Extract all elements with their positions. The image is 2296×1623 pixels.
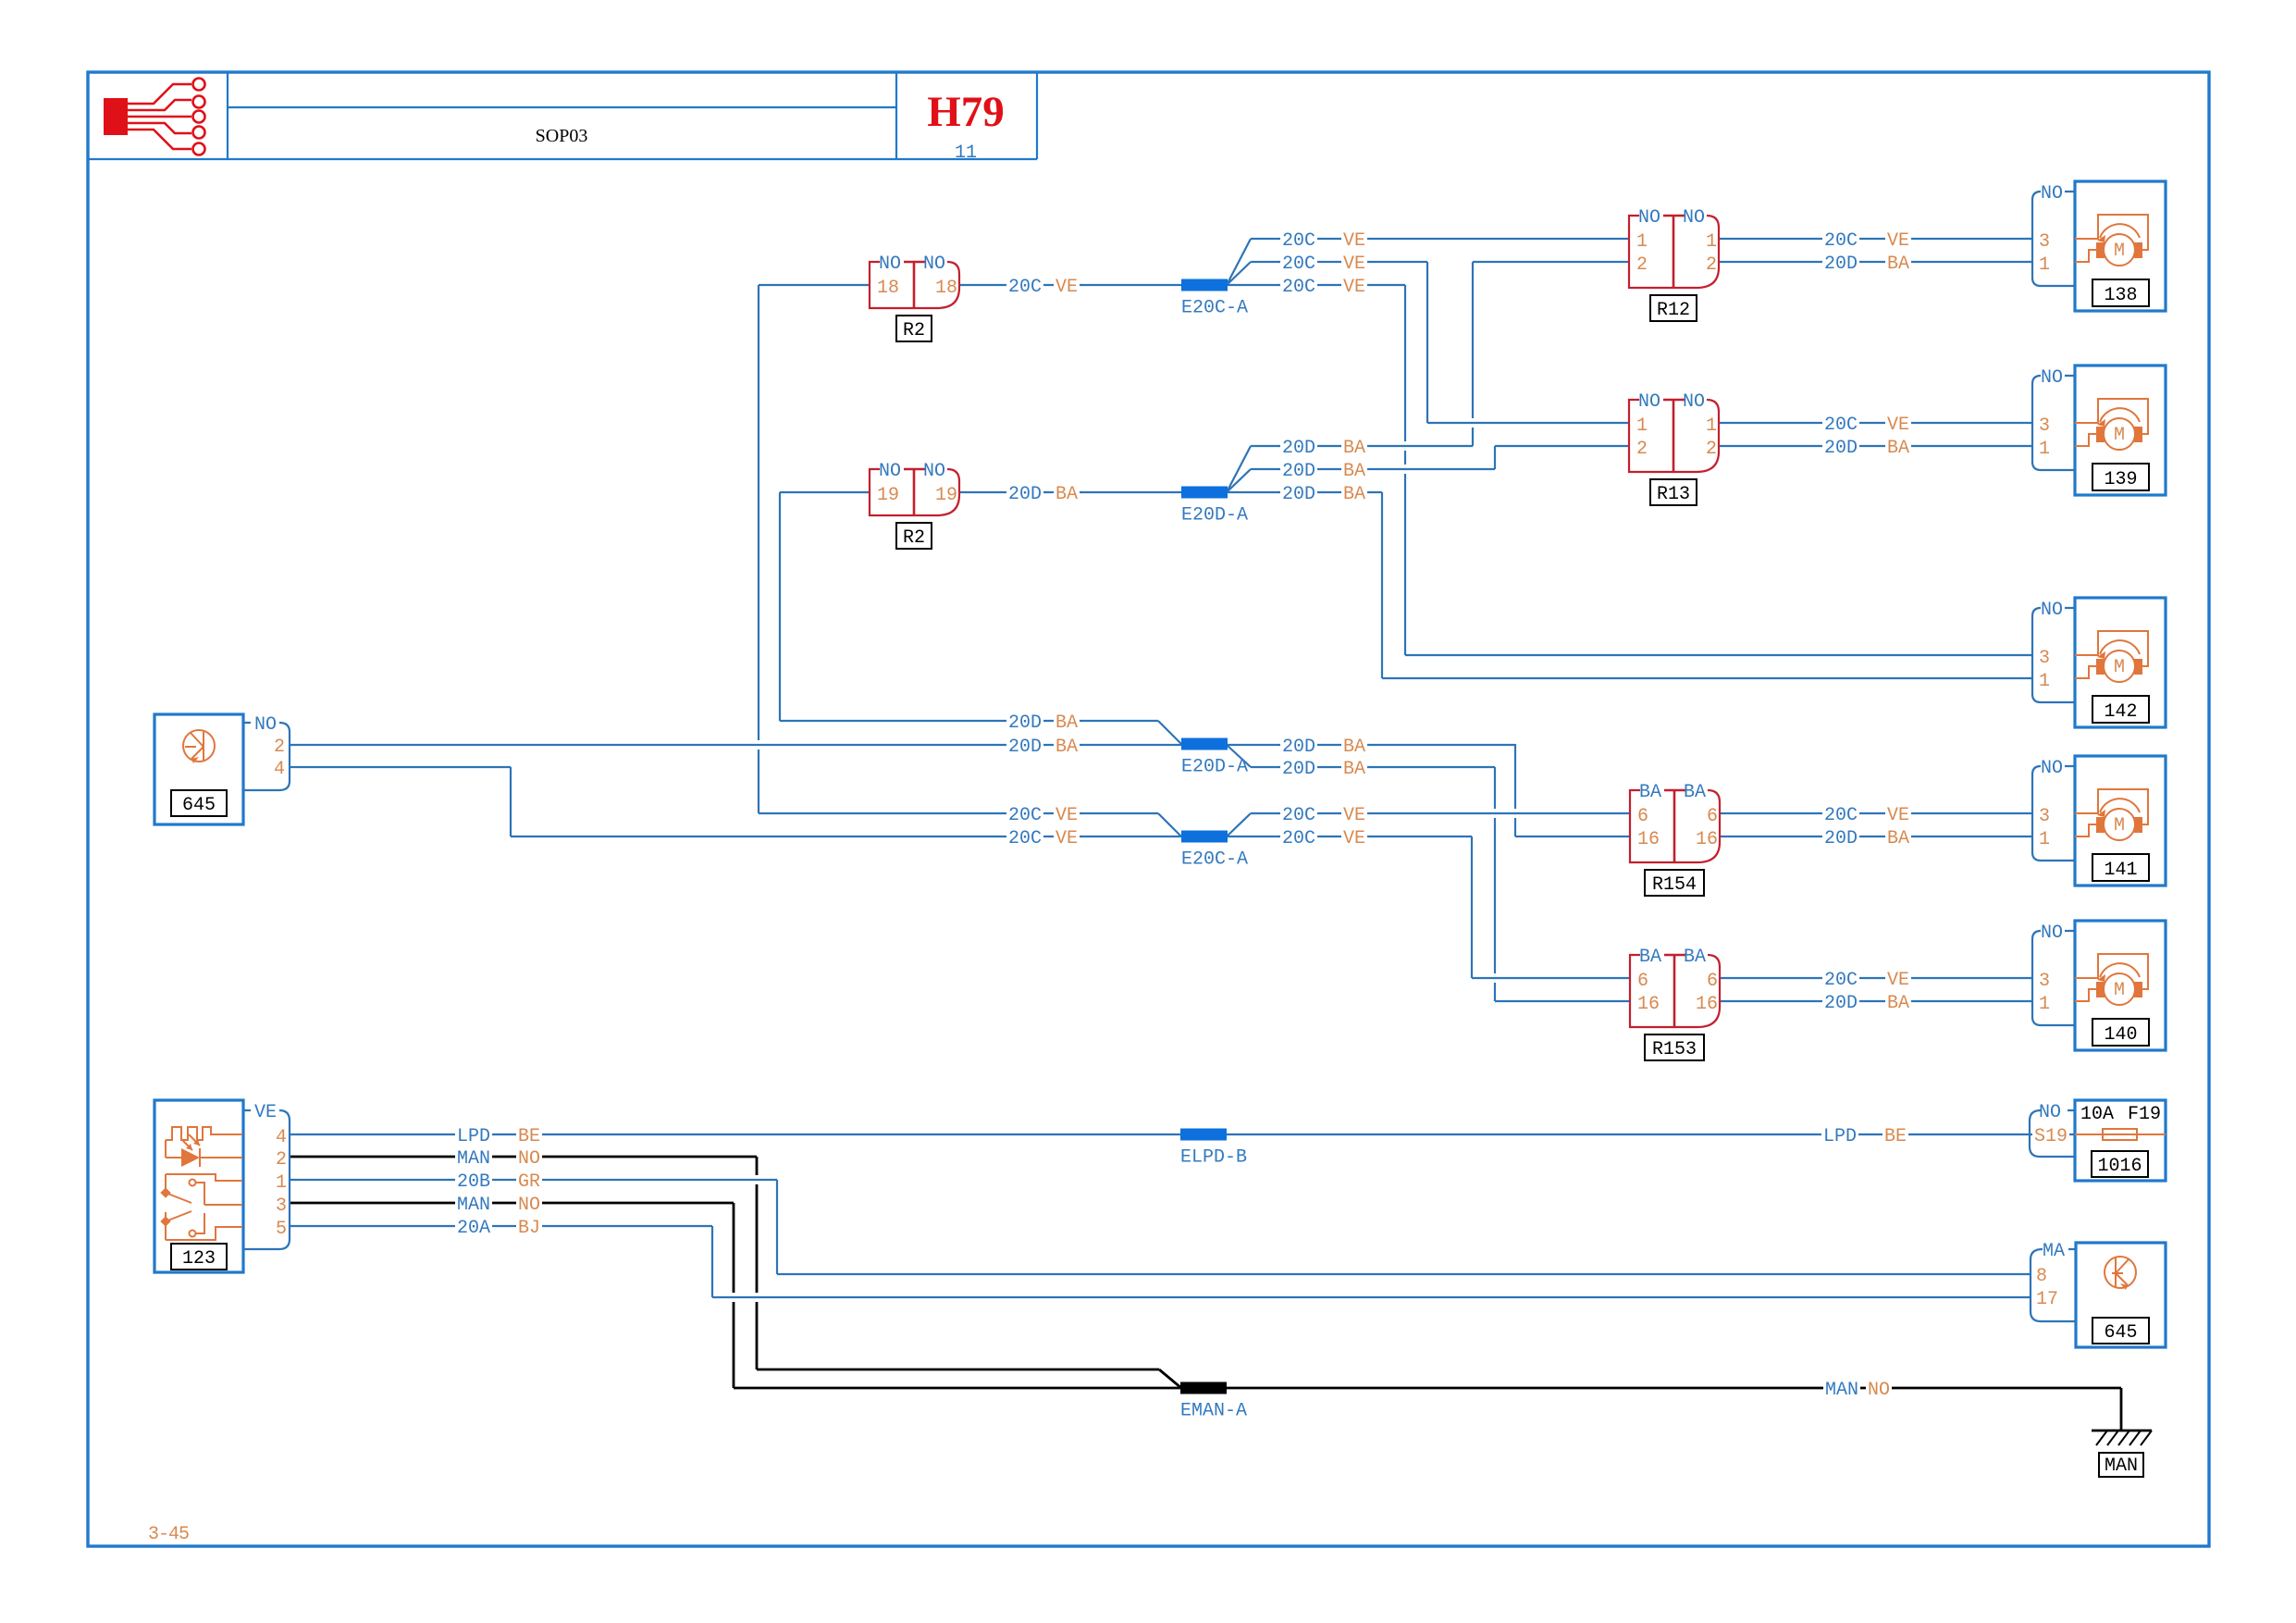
svg-text:VE: VE <box>1055 805 1078 826</box>
svg-text:MAN: MAN <box>1825 1380 1858 1401</box>
svg-text:NO: NO <box>254 714 277 736</box>
svg-text:1: 1 <box>2039 829 2050 850</box>
svg-text:MAN: MAN <box>457 1148 490 1170</box>
wire vertical 20D-BA down to R153 pin16 <box>1494 767 1496 1001</box>
svg-text:20D: 20D <box>1282 759 1315 780</box>
wire 20D-BA splice out row1 <box>1251 437 1473 459</box>
svg-text:20C: 20C <box>1008 828 1042 849</box>
svg-text:142: 142 <box>2104 701 2137 723</box>
motor component 142 <box>2032 598 2166 727</box>
svg-text:VE: VE <box>1343 254 1365 275</box>
svg-text:NO: NO <box>2041 183 2063 204</box>
svg-text:20D: 20D <box>1824 438 1858 459</box>
svg-text:MA: MA <box>2043 1241 2065 1262</box>
wire vertical from R2 pin19 down to E20D-A branch <box>779 492 781 721</box>
svg-text:NO: NO <box>2041 600 2063 621</box>
wire vertical from R2 pin18 down to E20C-A branch <box>758 285 759 813</box>
splice fan E20D-A upper diagonals <box>1227 446 1251 492</box>
wire 20C-VE splice out to R12 pin1 <box>1251 229 1629 252</box>
svg-text:20C: 20C <box>1282 230 1315 252</box>
svg-text:3: 3 <box>2039 971 2050 992</box>
svg-text:BA: BA <box>1343 484 1365 505</box>
svg-text:3: 3 <box>2039 231 2050 253</box>
motor component 138 <box>2032 181 2166 311</box>
wire 20C-VE splice low out straight <box>1227 827 1472 849</box>
control unit 645 bottom <box>2031 1241 2166 1347</box>
sheet code H79 <box>927 88 1005 136</box>
svg-text:R13: R13 <box>1657 484 1690 505</box>
svg-text:NO: NO <box>2041 923 2063 944</box>
svg-text:1: 1 <box>1706 231 1717 253</box>
svg-text:20A: 20A <box>457 1218 490 1239</box>
wire 20C-VE into R13 pin1 <box>1427 422 1629 424</box>
wire 20C-VE 645 pin4 to splice E20C-A <box>511 827 1181 849</box>
svg-text:2: 2 <box>1636 254 1648 276</box>
svg-text:NO: NO <box>518 1148 540 1170</box>
wire vertical 20D-BA up to R12 pin2 <box>1472 262 1474 446</box>
svg-text:VE: VE <box>1887 805 1909 826</box>
svg-text:SOP03: SOP03 <box>536 126 588 146</box>
wire 20D-BA R13 to motor 139 pin1 <box>1719 437 2032 459</box>
svg-text:6: 6 <box>1637 971 1648 992</box>
svg-text:VE: VE <box>1343 277 1365 298</box>
svg-text:E20C-A: E20C-A <box>1181 849 1248 871</box>
wire vertical 20A-BJ down to 645 pin17 <box>711 1226 713 1297</box>
fuse holder S19 bracket <box>2030 1102 2075 1157</box>
motor component 139 <box>2032 365 2166 495</box>
wire vertical 20C-VE down to R153 pin6 <box>1471 836 1473 978</box>
splice E20C-A lower <box>1181 831 1248 871</box>
page number 3-45 <box>148 1524 189 1545</box>
svg-text:BA: BA <box>1684 782 1706 803</box>
svg-text:3: 3 <box>2039 415 2050 437</box>
svg-text:R2: R2 <box>903 527 925 549</box>
svg-text:2: 2 <box>1706 254 1717 276</box>
wire 20C-VE R12 to motor 138 pin3 <box>1719 229 2032 252</box>
label 141 <box>2092 854 2149 881</box>
svg-text:123: 123 <box>182 1248 216 1270</box>
svg-text:2: 2 <box>274 737 285 758</box>
svg-text:BA: BA <box>1055 484 1078 505</box>
svg-text:20C: 20C <box>1824 415 1858 436</box>
wire vertical 20D-BA to motor 142 pin1 <box>1381 492 1383 678</box>
connector R13 <box>1629 391 1719 505</box>
svg-text:BA: BA <box>1887 438 1909 459</box>
wire 20D-BA into R154 pin16 <box>1515 836 1630 837</box>
splice EMAN-A diagonal <box>1159 1369 1181 1388</box>
connector R2 pins 18 <box>870 254 959 341</box>
wire LPD-BE 123 pin4 to fuse 1016 <box>290 1125 2075 1147</box>
svg-text:3: 3 <box>2039 648 2050 669</box>
svg-text:S19: S19 <box>2034 1126 2068 1147</box>
wire vertical black MAN-NO from 123 pin2 <box>756 1157 759 1369</box>
wire vertical 20C-VE to motor 142 pin3 <box>1404 285 1406 655</box>
svg-text:NO: NO <box>1638 391 1660 413</box>
svg-text:1: 1 <box>2039 671 2050 692</box>
svg-text:BA: BA <box>1887 254 1909 275</box>
motor component 141 <box>2032 756 2166 886</box>
control unit 645 top <box>154 714 290 824</box>
svg-text:141: 141 <box>2104 860 2137 881</box>
svg-text:M: M <box>2114 815 2125 836</box>
label 123 <box>171 1244 227 1270</box>
svg-text:BA: BA <box>1684 947 1706 968</box>
svg-text:BA: BA <box>1887 993 1909 1014</box>
wire 20D-BA branch from R2 pin19 to splice <box>780 712 1158 734</box>
svg-text:6: 6 <box>1707 806 1718 827</box>
svg-text:18: 18 <box>935 278 957 299</box>
wire 20A-BJ 123 pin5 <box>290 1217 712 1239</box>
connector R2 pins 19 <box>870 461 959 549</box>
svg-text:NO: NO <box>2041 367 2063 389</box>
label 138 <box>2092 279 2149 306</box>
svg-text:M: M <box>2114 241 2125 262</box>
svg-text:20D: 20D <box>1824 254 1858 275</box>
svg-text:NO: NO <box>2039 1102 2061 1123</box>
svg-text:LPD: LPD <box>1823 1126 1857 1147</box>
wire to motor 142 pin3 <box>1405 654 2032 656</box>
wire 20C-VE R153 to motor 140 pin3 <box>1720 969 2032 991</box>
svg-text:NO: NO <box>1683 207 1705 229</box>
motor component 140 <box>2032 921 2166 1050</box>
wire 20D-BA splice mid out straight <box>1227 736 1515 758</box>
connector R153 <box>1630 947 1720 1060</box>
label MAN <box>2099 1453 2143 1477</box>
svg-text:EMAN-A: EMAN-A <box>1180 1401 1247 1422</box>
svg-text:3: 3 <box>2039 806 2050 827</box>
splice E20D-A mid diagonals <box>1158 721 1251 767</box>
label 645 bottom <box>2092 1318 2149 1344</box>
wire black MAN-NO to splice EMAN-A upper <box>757 1369 1159 1371</box>
svg-text:645: 645 <box>182 795 216 816</box>
svg-text:4: 4 <box>276 1127 287 1148</box>
wire vertical 20B-GR down to 645 pin8 <box>776 1180 778 1274</box>
svg-text:BJ: BJ <box>518 1218 540 1239</box>
splice E20C-A upper <box>1181 279 1248 319</box>
svg-text:BA: BA <box>1343 461 1365 482</box>
splice E20D-A middle <box>1181 738 1248 778</box>
svg-text:M: M <box>2114 425 2125 446</box>
wire 20D-BA R153 to motor 140 pin1 <box>1720 992 2032 1014</box>
svg-text:3-45: 3-45 <box>148 1524 189 1545</box>
svg-text:MAN: MAN <box>2105 1456 2138 1477</box>
svg-text:BE: BE <box>518 1126 540 1147</box>
wire vertical black to MAN ground <box>2120 1388 2123 1431</box>
svg-text:NO: NO <box>879 461 901 482</box>
wire 20C-VE splice out row3 <box>1227 276 1405 298</box>
wire 20C-VE into R153 pin6 <box>1472 977 1630 979</box>
svg-text:NO: NO <box>518 1195 540 1216</box>
svg-text:E20C-A: E20C-A <box>1181 298 1248 319</box>
wire 20C-VE splice out row2 <box>1251 253 1427 275</box>
svg-text:VE: VE <box>1343 230 1365 252</box>
label 1016 <box>2092 1151 2148 1177</box>
svg-text:NO: NO <box>1683 391 1705 413</box>
svg-text:19: 19 <box>935 485 957 506</box>
svg-text:20D: 20D <box>1008 712 1042 734</box>
svg-text:R153: R153 <box>1652 1039 1697 1060</box>
wire 20B-GR to 645 pin8 <box>777 1273 2031 1275</box>
svg-text:NO: NO <box>923 254 945 275</box>
svg-text:VE: VE <box>254 1102 277 1123</box>
svg-text:BE: BE <box>1884 1126 1907 1147</box>
wire vertical 645 pin4 step down <box>510 767 512 836</box>
svg-text:18: 18 <box>877 278 899 299</box>
wire 20C-VE R13 to motor 139 pin3 <box>1719 414 2032 436</box>
wire 20C-VE R2 pin18 to splice E20C-A <box>959 276 1181 298</box>
wire 20D-BA splice out row3 <box>1227 483 1382 505</box>
svg-text:VE: VE <box>1343 805 1365 826</box>
wire 20D-BA R12 to motor 138 pin1 <box>1719 253 2032 275</box>
wire 20D-BA R154 to motor 141 pin1 <box>1720 827 2032 849</box>
wire R2 pin19 left <box>780 491 870 493</box>
wire black MAN-NO splice to ground <box>1226 1379 2121 1401</box>
wire vertical 20D-BA step up to R13 pin2 <box>1494 446 1496 469</box>
svg-text:1: 1 <box>2039 254 2050 276</box>
svg-text:VE: VE <box>1887 415 1909 436</box>
svg-text:10A: 10A <box>2080 1104 2114 1125</box>
wire 645 pin4 out <box>290 766 511 768</box>
svg-text:20C: 20C <box>1824 970 1858 991</box>
svg-text:5: 5 <box>276 1219 287 1240</box>
svg-text:16: 16 <box>1637 994 1660 1015</box>
wire to motor 142 pin1 <box>1382 677 2032 679</box>
sheet number 11 <box>955 142 977 164</box>
svg-text:NO: NO <box>923 461 945 482</box>
svg-text:R154: R154 <box>1652 874 1697 896</box>
label 140 <box>2092 1019 2149 1046</box>
svg-text:R12: R12 <box>1657 300 1690 321</box>
svg-text:VE: VE <box>1055 828 1078 849</box>
switch unit 123 <box>154 1100 290 1272</box>
svg-text:M: M <box>2114 980 2125 1001</box>
svg-text:20C: 20C <box>1282 277 1315 298</box>
svg-text:NO: NO <box>879 254 901 275</box>
svg-text:BA: BA <box>1639 782 1661 803</box>
svg-text:1: 1 <box>276 1172 287 1194</box>
wire 20D-BA into R13 pin2 <box>1495 445 1629 447</box>
svg-text:1: 1 <box>1636 231 1648 253</box>
wire black MAN-NO 123 pin2 <box>290 1147 757 1170</box>
svg-text:8: 8 <box>2036 1266 2047 1287</box>
svg-text:19: 19 <box>877 485 899 506</box>
svg-text:BA: BA <box>1343 737 1365 758</box>
svg-text:4: 4 <box>274 759 285 780</box>
wire 20D-BA into R153 pin16 <box>1495 1000 1630 1002</box>
svg-text:11: 11 <box>955 142 977 164</box>
svg-text:BA: BA <box>1055 712 1078 734</box>
svg-text:17: 17 <box>2036 1289 2058 1310</box>
svg-text:LPD: LPD <box>457 1126 490 1147</box>
red harness logo <box>104 79 205 155</box>
svg-text:139: 139 <box>2104 469 2137 490</box>
svg-text:6: 6 <box>1637 806 1648 827</box>
svg-text:20C: 20C <box>1008 805 1042 826</box>
wire 20D-BA 645 pin2 to splice E20D-A <box>290 736 1181 758</box>
svg-text:20C: 20C <box>1824 805 1858 826</box>
svg-text:2: 2 <box>1636 439 1648 460</box>
label 142 <box>2092 696 2149 723</box>
svg-text:BA: BA <box>1343 759 1365 780</box>
wire R2 pin18 left <box>759 284 870 286</box>
connector R154 <box>1630 782 1720 896</box>
svg-text:20C: 20C <box>1282 828 1315 849</box>
wire 20D-BA into R12 pin2 <box>1473 261 1629 263</box>
splice E20D-A upper <box>1181 487 1248 527</box>
svg-text:VE: VE <box>1887 230 1909 252</box>
svg-text:BA: BA <box>1639 947 1661 968</box>
header text SOP03 <box>536 126 588 146</box>
svg-text:20D: 20D <box>1824 993 1858 1014</box>
svg-text:NO: NO <box>2041 758 2063 779</box>
svg-text:E20D-A: E20D-A <box>1181 505 1248 527</box>
svg-text:VE: VE <box>1055 277 1078 298</box>
svg-text:1: 1 <box>2039 439 2050 460</box>
svg-text:20D: 20D <box>1282 438 1315 459</box>
svg-text:20D: 20D <box>1008 484 1042 505</box>
svg-text:2: 2 <box>1706 439 1717 460</box>
ground symbol MAN <box>2092 1431 2152 1445</box>
svg-text:138: 138 <box>2104 285 2137 306</box>
svg-text:20D: 20D <box>1008 737 1042 758</box>
wire 20C-VE splice low out to R154 pin6 <box>1251 804 1630 826</box>
wire vertical 20D-BA down to R154 pin16 <box>1514 744 1516 836</box>
svg-text:F19: F19 <box>2128 1104 2161 1125</box>
svg-text:MAN: MAN <box>457 1195 490 1216</box>
wire 20D-BA splice mid out lower <box>1251 758 1495 780</box>
splice ELPD-B <box>1180 1129 1247 1169</box>
connector R12 <box>1629 207 1719 321</box>
wire black MAN-NO 123 pin3 <box>290 1194 734 1216</box>
svg-text:2: 2 <box>276 1149 287 1171</box>
svg-text:20D: 20D <box>1824 828 1858 849</box>
fuse component 1016 F19 <box>2075 1100 2166 1181</box>
wire vertical black MAN-NO from 123 pin3 <box>733 1203 735 1388</box>
svg-text:20B: 20B <box>457 1171 490 1193</box>
svg-text:6: 6 <box>1707 971 1718 992</box>
svg-text:R2: R2 <box>903 320 925 341</box>
splice E20C-A low diagonals <box>1158 813 1251 836</box>
svg-text:20C: 20C <box>1824 230 1858 252</box>
svg-text:140: 140 <box>2104 1024 2137 1046</box>
svg-text:1: 1 <box>1636 415 1648 437</box>
svg-text:E20D-A: E20D-A <box>1181 757 1248 778</box>
svg-text:1: 1 <box>1706 415 1717 437</box>
splice fan E20C-A top diagonals <box>1227 239 1251 285</box>
svg-text:16: 16 <box>1637 829 1660 850</box>
svg-text:1: 1 <box>2039 994 2050 1015</box>
svg-text:VE: VE <box>1887 970 1909 991</box>
svg-text:20D: 20D <box>1282 737 1315 758</box>
splice EMAN-A <box>1180 1382 1247 1422</box>
svg-text:645: 645 <box>2104 1322 2137 1344</box>
svg-text:NO: NO <box>1868 1380 1890 1401</box>
label 139 <box>2092 464 2149 490</box>
wire 20C-VE branch from R2 pin18 to splice <box>759 804 1158 826</box>
wire 20D-BA R2 pin19 to splice E20D-A <box>959 483 1181 505</box>
wire 20A-BJ to 645 pin17 <box>712 1296 2031 1298</box>
svg-text:M: M <box>2114 657 2125 678</box>
wire 20D-BA splice out row2 <box>1251 460 1495 482</box>
label 645 <box>171 790 227 816</box>
svg-text:20D: 20D <box>1282 461 1315 482</box>
svg-text:20C: 20C <box>1282 254 1315 275</box>
svg-text:BA: BA <box>1887 828 1909 849</box>
svg-text:GR: GR <box>518 1171 540 1193</box>
svg-text:H79: H79 <box>927 88 1005 136</box>
wire 20B-GR 123 pin1 <box>290 1171 777 1193</box>
svg-text:ELPD-B: ELPD-B <box>1180 1147 1247 1169</box>
wire black MAN-NO to splice EMAN-A straight <box>734 1387 1180 1390</box>
wire vertical 20C-VE to R13 pin1 <box>1426 262 1428 423</box>
svg-text:3: 3 <box>276 1196 287 1217</box>
svg-text:16: 16 <box>1696 994 1718 1015</box>
svg-text:NO: NO <box>1638 207 1660 229</box>
svg-text:20D: 20D <box>1282 484 1315 505</box>
svg-text:16: 16 <box>1696 829 1718 850</box>
svg-text:20C: 20C <box>1008 277 1042 298</box>
svg-text:BA: BA <box>1055 737 1078 758</box>
svg-text:BA: BA <box>1343 438 1365 459</box>
title block header box <box>88 72 1037 159</box>
svg-text:20C: 20C <box>1282 805 1315 826</box>
svg-text:VE: VE <box>1343 828 1365 849</box>
svg-text:1016: 1016 <box>2097 1156 2142 1177</box>
wire 20C-VE R154 to motor 141 pin3 <box>1720 804 2032 826</box>
